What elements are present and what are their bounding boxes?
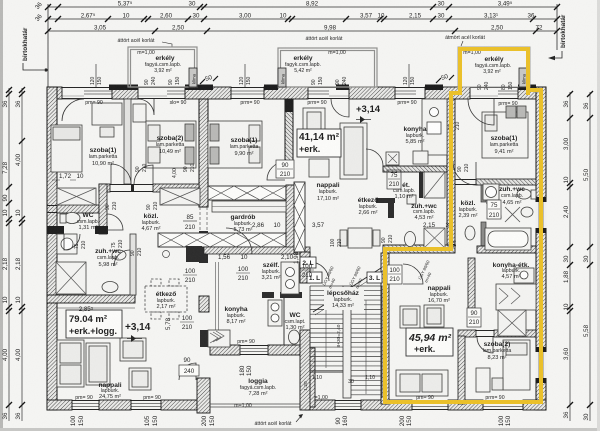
top exterior wall faces	[47, 87, 546, 89]
toilet zuh598	[102, 282, 118, 293]
sink zuh598	[112, 250, 126, 260]
klima box balcony3	[519, 68, 527, 87]
stair section cut line	[313, 268, 381, 312]
szoba2R top wall	[458, 330, 536, 332]
right dimension line inner	[569, 92, 571, 421]
WC right wall	[99, 184, 107, 234]
left dim numbers outer	[2, 100, 9, 419]
4594 label box	[406, 328, 453, 356]
loggia step wall	[197, 378, 210, 413]
kozl239 door arc	[453, 162, 476, 185]
left exterior wall	[47, 87, 57, 410]
konyha585 door arc	[366, 149, 383, 166]
bed szoba2	[146, 121, 196, 168]
balcony 1 outline	[128, 47, 197, 87]
top dimension line row 2	[48, 18, 557, 20]
top dimension numbers row 3	[94, 25, 543, 32]
bottom wall hatched piers	[47, 400, 546, 410]
stairwell left wall	[300, 252, 310, 283]
bed szoba2R	[503, 340, 530, 390]
bed szoba1 left	[51, 125, 82, 172]
sofa 4114	[340, 123, 367, 179]
center wall dark piece at konyha	[200, 330, 208, 347]
bed szoba1R 941	[482, 112, 528, 158]
kozl door arc to szoba1R990	[134, 165, 153, 184]
balcony 3 outline	[458, 47, 530, 87]
right wall window lower	[536, 352, 547, 378]
bathtub zuh465	[485, 228, 531, 250]
wall szoba1R990/nappali4114	[285, 99, 293, 162]
projection line top-left corner	[47, 4, 49, 87]
WC bottom wall black bars	[47, 226, 64, 234]
wardrobe szoba2	[133, 104, 146, 122]
toilet kozl239	[465, 226, 475, 240]
top dimension line row 1	[48, 6, 557, 8]
window dim pair x96	[95, 64, 97, 87]
et L wall	[376, 198, 395, 203]
level label 1L	[307, 272, 322, 283]
kitchen counter right apt	[496, 284, 536, 310]
loggia right wall	[302, 348, 315, 407]
yellow balcony3 outline	[460, 49, 528, 95]
zuh598 bottom wall	[47, 295, 135, 303]
desk szoba2R	[476, 368, 490, 392]
stair treads	[310, 286, 382, 395]
szoba1R990 door arc	[267, 162, 285, 180]
kozl door arc to szoba2	[111, 164, 131, 184]
stair center stringer	[343, 286, 351, 398]
zuh598 side door arc	[114, 250, 130, 266]
sink right apt	[514, 268, 534, 283]
stair walk arrows	[325, 300, 327, 368]
left ticks	[6, 87, 25, 408]
hatched piers of top wall	[47, 87, 546, 99]
shower zuh453	[424, 172, 445, 198]
wall below kozl239	[477, 246, 536, 253]
nappali2475/loggia door arc	[179, 363, 196, 380]
konyha585 zigzag box	[386, 152, 399, 165]
left dimension line inner	[21, 88, 23, 421]
konyha817 left boundary lines	[215, 262, 217, 345]
top dimension line row 3	[48, 30, 557, 32]
center wall lower hatch piece	[199, 296, 209, 312]
drain cross zuh465	[505, 207, 520, 222]
et/zuh453 partition	[419, 172, 423, 198]
szoba2R door arc	[477, 337, 493, 353]
gardrob right wall	[286, 185, 294, 252]
bottom exterior wall faces	[47, 400, 197, 402]
bottom dim number pairs	[70, 415, 512, 426]
75/210 box et	[387, 170, 401, 189]
black lintel caps top wall	[109, 85, 536, 91]
zuh465 door arc	[486, 203, 501, 218]
gardrob wardrobe band	[212, 201, 286, 212]
door arc balcony2/4114	[331, 99, 349, 117]
right exterior wall	[536, 87, 546, 410]
yellow apartment boundary	[385, 90, 541, 402]
bidet zuh465	[521, 207, 533, 217]
sink zuh465	[483, 184, 499, 200]
dimension ticks top	[45, 4, 560, 34]
right ticks	[567, 91, 593, 408]
sofa nappali1670	[396, 370, 448, 396]
door arc balcony3/szoba1R	[468, 99, 494, 125]
stair side rails	[309, 286, 311, 372]
right dim numbers inner	[563, 100, 570, 418]
wall below szoba1R941	[453, 179, 536, 181]
coffee table 4114	[309, 159, 329, 177]
level label 2L	[300, 257, 316, 268]
wall below zuh453	[383, 245, 455, 253]
door dim rotated pairs	[74, 121, 470, 256]
75/210 box zuh465	[487, 200, 501, 219]
90/210 box szoba2R	[467, 308, 481, 327]
door arc balcony1/szoba2	[138, 99, 154, 115]
zuh598 right wall	[130, 234, 136, 295]
cross cabinet szoba1R990	[160, 188, 200, 205]
klima box balcony1	[189, 68, 197, 87]
desk szoba1 left	[92, 103, 122, 125]
pm labels	[75, 100, 517, 401]
toilet WC2	[289, 330, 300, 344]
etkezo266 table	[348, 228, 372, 248]
center wall mid dark piece	[199, 231, 208, 263]
scan edge streaks	[0, 0, 3, 431]
toilet zuh465	[517, 189, 531, 199]
4114 label box	[297, 129, 341, 157]
right dimension line outer	[589, 92, 591, 421]
door threshold lines top wall	[62, 95, 498, 97]
washer zuh598	[57, 234, 77, 254]
thick center wall upper	[199, 99, 208, 207]
balcony 2 outline	[278, 48, 377, 87]
left dimension line outer	[8, 88, 10, 421]
100/210 box right apt entry	[387, 265, 402, 284]
top dimension numbers row 1	[118, 1, 513, 8]
lepcsohaz label	[324, 287, 364, 310]
right wall window upper	[536, 202, 547, 228]
stairwell door arc	[310, 262, 329, 281]
door arc szoba1L top	[62, 99, 84, 121]
fridge X right apt	[498, 310, 526, 336]
washer zuh453	[424, 228, 445, 248]
WC2 left wall	[283, 298, 285, 345]
armchair 4114	[303, 108, 325, 150]
shower zuh598	[56, 262, 86, 294]
seat nappali2475	[86, 343, 110, 385]
szoba2R left wall	[458, 336, 465, 404]
90/210 box szoba1R990 door	[276, 160, 294, 178]
right apt left wall lower	[381, 253, 389, 404]
szoba1L bottom wall / WC top	[47, 205, 107, 207]
right dim numbers outer	[583, 102, 590, 420]
armchairs nappali1670	[400, 306, 420, 328]
toilet zuh453	[405, 232, 416, 247]
gardrob top insulated wall	[208, 186, 286, 200]
WC2 top wall	[262, 292, 274, 298]
klima box balcony2	[278, 68, 286, 87]
projection line top-right corner	[556, 4, 558, 50]
right apt left wall upper	[447, 99, 455, 245]
szelf glazed wall	[294, 182, 305, 252]
7904 label box	[66, 310, 122, 338]
toilet WC	[64, 213, 80, 224]
armchair A nappali2475	[120, 338, 146, 361]
washer et110	[407, 195, 416, 204]
konyha585 bottom wall	[383, 166, 447, 172]
gardrob bottom insulated wall	[158, 233, 286, 262]
konyha/loggia wall	[210, 345, 302, 347]
WC door arc	[107, 214, 123, 230]
etkezo217 table dashed	[145, 279, 187, 319]
left dim numbers inner	[15, 100, 22, 419]
zuh598 door arc	[64, 234, 80, 250]
konyha817 sink pair	[268, 300, 282, 326]
loggia open edge	[210, 403, 302, 405]
konyha585 counter	[422, 99, 447, 155]
window glazing lines top wall	[84, 91, 518, 94]
szelf entry door arc	[226, 228, 252, 254]
konyha817 counter	[281, 262, 299, 294]
entry band wall	[204, 247, 310, 254]
konyha817 stove	[208, 330, 230, 347]
wall szoba1L/szoba2	[124, 99, 131, 184]
bottom wall window glazing	[72, 404, 523, 407]
right apt entry door arc	[403, 264, 423, 284]
level label 3L	[367, 272, 382, 283]
bed szoba1 990	[208, 121, 262, 168]
top dimension numbers row 2	[81, 13, 535, 20]
sofa L nappali2475	[57, 340, 84, 387]
corridor wall left apt	[99, 184, 199, 186]
armchair B nappali2475	[129, 368, 151, 390]
cross cabinet szoba1 left	[57, 188, 96, 205]
konyha-etk/nappali partition	[468, 258, 475, 308]
window dim pair x409	[408, 64, 410, 87]
window dim pair x245	[244, 64, 246, 87]
kozl/zuh465 partition	[481, 185, 486, 202]
